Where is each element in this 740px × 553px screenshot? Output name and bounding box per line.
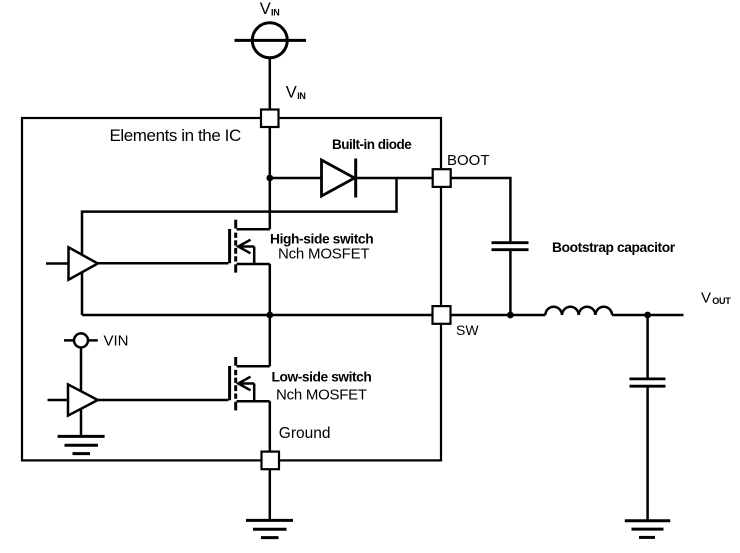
svg-text:BOOT: BOOT xyxy=(447,152,490,169)
label VOUT xyxy=(701,290,731,307)
wire: Q2 source to Ground pin xyxy=(269,401,272,451)
op-amp U1 high-side gate driver xyxy=(69,247,98,279)
svg-text:V: V xyxy=(701,290,711,307)
svg-text:Ground: Ground xyxy=(279,425,331,442)
IC boundary box xyxy=(22,118,441,460)
capacitor C2 output capacitor xyxy=(630,379,666,386)
voltage source VIN xyxy=(235,23,307,58)
pin Ground xyxy=(262,452,280,470)
svg-text:Built-in diode: Built-in diode xyxy=(332,137,412,152)
wire: BOOT pin to bootstrap capacitor xyxy=(451,178,511,241)
svg-text:V: V xyxy=(286,83,297,101)
op-amp U2 low-side gate driver xyxy=(68,384,98,415)
wire: bootstrap capacitor to SW line xyxy=(509,251,512,315)
wire: driver top feed through high-side buffer to SW rail xyxy=(81,250,84,315)
svg-text:V: V xyxy=(260,0,271,18)
wire: VOUT node to output capacitor xyxy=(646,315,649,378)
inductor L1 xyxy=(545,307,612,315)
svg-text:VIN: VIN xyxy=(104,333,129,350)
wire: branch down from diode output xyxy=(82,178,397,250)
svg-text:IN: IN xyxy=(271,7,279,17)
svg-text:Nch MOSFET: Nch MOSFET xyxy=(276,386,367,403)
wire: Q2 drain to SW rail xyxy=(269,315,272,366)
svg-text:High-side switch: High-side switch xyxy=(270,231,373,246)
wire: inductor to VOUT xyxy=(612,314,683,317)
wire: Q1 source to SW rail xyxy=(269,264,272,315)
wire: U1 input stub xyxy=(46,262,69,265)
wire: U1 output to Q1 gate xyxy=(98,262,229,265)
node VOUT junction dot xyxy=(644,312,651,319)
svg-text:IN: IN xyxy=(297,91,305,101)
pin SW xyxy=(433,306,451,324)
svg-text:Nch MOSFET: Nch MOSFET xyxy=(278,245,369,262)
wire: U2 output to Q2 gate xyxy=(98,399,229,402)
wire: diode cathode to BOOT pin xyxy=(356,177,433,180)
pin BOOT xyxy=(433,169,451,187)
wire: node A to diode anode xyxy=(270,177,322,180)
svg-text:Bootstrap capacitor: Bootstrap capacitor xyxy=(552,240,676,255)
capacitor C1 bootstrap capacitor xyxy=(492,243,529,250)
node A junction dot xyxy=(266,175,273,182)
node SW junction dot xyxy=(266,312,273,319)
svg-text:OUT: OUT xyxy=(712,296,731,306)
pin VIN xyxy=(261,110,279,128)
wire: SW pin to inductor xyxy=(450,314,545,317)
svg-text:Elements in the IC: Elements in the IC xyxy=(110,126,241,145)
transistor Q1 high-side switch Nch MOSFET xyxy=(230,220,270,273)
wire: Ground pin to ground symbol xyxy=(269,469,272,520)
ground (output) xyxy=(625,521,670,538)
wire: U2 input stub xyxy=(48,399,69,402)
wire: VIN terminal down through low-side buffer to ground xyxy=(80,347,83,436)
terminal VIN (driver supply) xyxy=(64,333,98,347)
wire: output capacitor to ground xyxy=(646,388,649,521)
ground (low-side driver) xyxy=(58,436,105,453)
label VIN (pin) xyxy=(286,83,306,101)
ground (main) xyxy=(246,520,293,537)
wire: source to VIN pin xyxy=(269,58,272,110)
node bootstrap-SW junction dot xyxy=(507,312,514,319)
diode built-in (anode triangle) xyxy=(322,160,355,196)
svg-text:SW: SW xyxy=(456,322,479,338)
wire: VIN pin to node A xyxy=(269,127,272,179)
diode cathode bar xyxy=(354,159,357,198)
wire: Q1 drain to node A xyxy=(269,178,272,229)
label VIN (source, top) xyxy=(260,0,280,18)
transistor Q2 low-side switch Nch MOSFET xyxy=(230,357,270,411)
svg-text:Low-side switch: Low-side switch xyxy=(272,370,372,385)
wire: SW rail xyxy=(82,314,433,317)
